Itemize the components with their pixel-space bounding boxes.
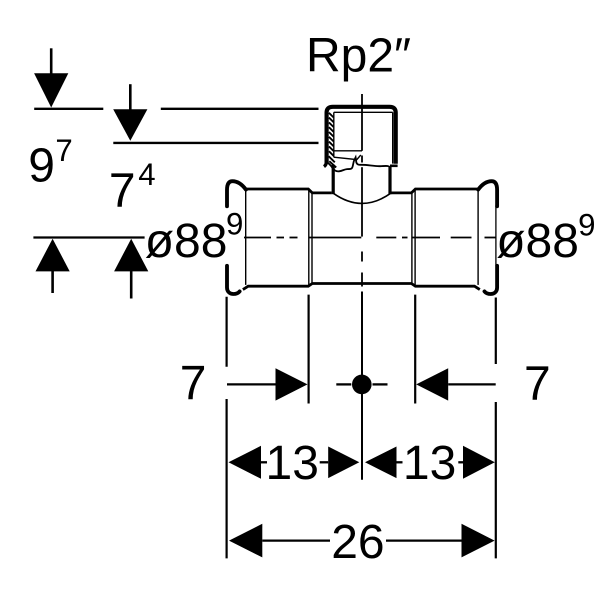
svg-text:7: 7 bbox=[55, 133, 72, 168]
extension line left bead bbox=[226, 297, 228, 559]
right press bead top hook bbox=[478, 181, 497, 206]
right pipe stop double line bbox=[411, 193, 413, 284]
left press bead bottom hook bbox=[227, 266, 240, 294]
dimension 13 right line a bbox=[397, 461, 403, 463]
extension line right bead bbox=[495, 298, 497, 559]
thread hatch band bbox=[329, 113, 337, 168]
dimension o88.9 up-arrowhead B bbox=[114, 239, 148, 272]
dimension 9.7 down-arrowhead bbox=[34, 73, 68, 107]
dimension 26 right arrowhead bbox=[462, 524, 495, 558]
left socket mouth line bbox=[245, 190, 247, 285]
dimension 13 right line b bbox=[458, 461, 463, 463]
branch neck right wall bbox=[388, 166, 391, 194]
dimension 13 left arrowhead outer bbox=[229, 446, 262, 479]
svg-text:7: 7 bbox=[109, 164, 136, 217]
svg-text:13: 13 bbox=[403, 437, 456, 490]
dimension o88.9 line left bbox=[33, 236, 144, 238]
right press bead bottom hook bbox=[485, 266, 498, 294]
branch inner right line bbox=[392, 112, 394, 163]
svg-text:ø88: ø88 bbox=[496, 215, 579, 268]
extension line left socket depth bbox=[308, 295, 310, 404]
svg-text:26: 26 bbox=[331, 516, 384, 569]
dimension 26 left line bbox=[262, 539, 330, 541]
dimension 7.4 down-arrow stem bbox=[129, 84, 132, 111]
dimension o88.9 up-arrow stem A bbox=[51, 269, 54, 293]
dimension 26 left arrowhead bbox=[229, 524, 262, 558]
centre dot bbox=[352, 375, 372, 395]
centerline extension through dimension rows bbox=[361, 292, 363, 480]
dimension 13 left line b bbox=[320, 461, 329, 463]
branch barrel bottom-right step bbox=[390, 165, 398, 168]
dimension 7 right line bbox=[448, 383, 496, 385]
top level line right segment bbox=[161, 108, 319, 110]
dimension 13 right arrowhead inner bbox=[365, 447, 397, 479]
tee bottom outline bbox=[243, 284, 480, 290]
dimension 26 right line bbox=[386, 539, 462, 541]
dimension 13 right arrowhead outer bbox=[463, 446, 495, 479]
dimension 13 left arrowhead inner bbox=[328, 447, 359, 479]
svg-text:9: 9 bbox=[578, 207, 595, 242]
dimension 7 right arrowhead bbox=[416, 368, 448, 400]
svg-text:13: 13 bbox=[266, 437, 319, 490]
right socket mouth line bbox=[477, 191, 479, 285]
dimension 7 left line bbox=[227, 383, 278, 385]
branch saddle arc bbox=[333, 193, 390, 203]
dimension o88.9 up-arrow stem B bbox=[130, 269, 133, 299]
vertical centerline of branch bbox=[361, 94, 363, 287]
left pipe stop double line bbox=[308, 190, 310, 285]
svg-text:Rp2″: Rp2″ bbox=[306, 30, 411, 83]
dimension 9.7 down-arrow stem bbox=[50, 48, 53, 76]
svg-text:7: 7 bbox=[524, 358, 551, 411]
svg-text:9: 9 bbox=[28, 139, 55, 192]
dimension 9.7 level line bbox=[34, 108, 103, 110]
tee top outline left: socket edge and step bbox=[246, 189, 332, 193]
dimension 7.4 down-arrowhead bbox=[113, 109, 147, 141]
left press bead top hook bbox=[227, 181, 246, 206]
incomplete thread line bbox=[334, 155, 361, 160]
centre tick right of dot bbox=[373, 383, 388, 385]
extension line right socket depth bbox=[414, 295, 416, 404]
tee top outline right: step and socket edge bbox=[391, 189, 478, 193]
branch barrel outline bbox=[327, 107, 396, 164]
svg-text:ø88: ø88 bbox=[145, 215, 228, 268]
dimension 13 left line a bbox=[261, 461, 267, 463]
horizontal centerline of run pipe bbox=[244, 237, 496, 239]
branch inner top line bbox=[334, 111, 393, 113]
dimension 7.4 level line bbox=[113, 142, 318, 144]
dimension o88.9 up-arrowhead A bbox=[36, 239, 70, 272]
branch inner left line bbox=[333, 112, 335, 157]
branch barrel bottom-left flare bbox=[324, 161, 327, 167]
svg-text:7: 7 bbox=[180, 357, 207, 410]
thread bore bottom line bbox=[334, 150, 362, 152]
centre tick left of dot bbox=[336, 383, 351, 385]
svg-text:9: 9 bbox=[226, 206, 243, 241]
dimension 7 left arrowhead bbox=[276, 368, 308, 400]
right bead rim line bbox=[495, 206, 497, 266]
svg-text:4: 4 bbox=[138, 157, 155, 192]
section break squiggle bbox=[327, 157, 389, 171]
branch neck left wall bbox=[332, 165, 335, 194]
